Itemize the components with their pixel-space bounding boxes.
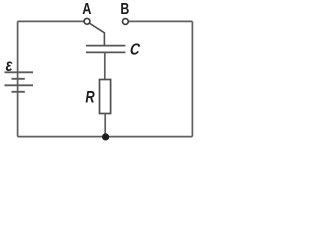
battery cell EMF: short plate 1 [12, 78, 25, 80]
switch arm (blade) from terminal A down to capacitor lead [89, 23, 104, 45]
wire: bottom horizontal [18, 136, 193, 138]
wire: top-left segment from left corner to switch terminal A [18, 20, 84, 22]
wire: capacitor bottom plate to resistor top [104, 52, 106, 79]
switch terminal B circle [123, 19, 129, 25]
battery cell EMF: long plate 1 [5, 71, 34, 73]
junction node dot on bottom wire [102, 133, 109, 140]
switch terminal A circle [84, 18, 90, 24]
capacitor C: top plate [86, 45, 125, 47]
wire: right side vertical [191, 21, 193, 136]
svg-text:A: A [82, 1, 91, 18]
svg-text:ε: ε [6, 57, 13, 76]
battery cell EMF: short plate 2 [12, 91, 25, 93]
capacitor C: bottom plate [86, 51, 125, 53]
svg-text:R: R [85, 89, 95, 107]
svg-text:C: C [129, 42, 141, 59]
svg-text:B: B [120, 0, 129, 17]
wire: resistor bottom to bottom wire [104, 114, 106, 137]
resistor R body (rectangle) [100, 80, 111, 114]
wire: top-right segment from switch terminal B to right corner [128, 20, 192, 22]
battery cell EMF: long plate 2 [5, 84, 34, 86]
wire: left side vertical through battery [17, 21, 19, 136]
